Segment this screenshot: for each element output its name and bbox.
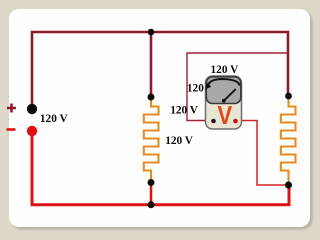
svg-text:120 V: 120 V	[170, 102, 198, 116]
node: right resistor top	[285, 93, 292, 100]
resistor R1 (left)	[144, 98, 159, 181]
node: left resistor top	[148, 94, 155, 101]
voltmeter arc arrowhead	[205, 82, 211, 89]
battery + terminal dot	[27, 104, 37, 114]
voltmeter right terminal	[233, 119, 238, 124]
battery - sign	[7, 128, 16, 131]
wire: bottom loop from - terminal	[32, 132, 289, 205]
node: left resistor bottom	[148, 179, 155, 186]
voltmeter needle	[224, 89, 236, 101]
battery - terminal dot	[27, 126, 37, 136]
svg-text:V: V	[217, 102, 232, 130]
battery + sign	[7, 104, 16, 113]
wire: voltmeter - lead to right junction	[236, 121, 288, 186]
wire: branch down to left resistor	[150, 32, 153, 95]
node: top junction of left branch	[148, 29, 155, 36]
wire: main top loop from + terminal across top to right branch	[32, 32, 288, 107]
svg-text:120 V: 120 V	[165, 133, 193, 147]
svg-text:120 V: 120 V	[211, 62, 239, 76]
node: right junction bottom	[285, 182, 292, 189]
voltmeter screen	[206, 77, 241, 104]
voltmeter U1 body	[206, 76, 242, 129]
voltmeter needle pivot	[222, 99, 226, 103]
wire: left resistor bottom to bottom wire	[150, 183, 153, 204]
voltmeter left terminal	[211, 119, 216, 124]
wire: thin voltmeter + lead	[187, 53, 288, 121]
node: left branch on bottom wire	[148, 201, 155, 208]
svg-text:120 V: 120 V	[40, 111, 68, 125]
voltmeter scale arc	[208, 79, 240, 87]
resistor R2 (right)	[281, 97, 296, 184]
